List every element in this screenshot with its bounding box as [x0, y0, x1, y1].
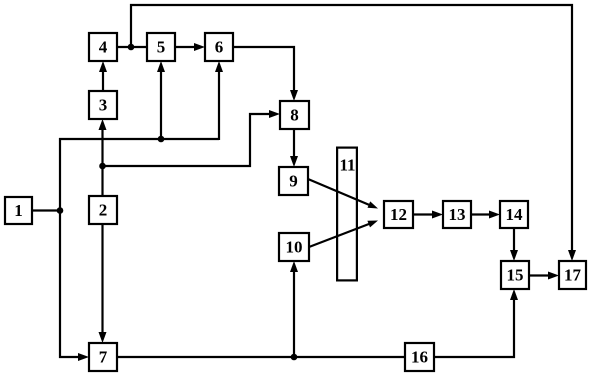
svg-text:7: 7: [99, 348, 108, 367]
svg-text:5: 5: [157, 38, 166, 57]
arrowhead of block10 diagonal: [367, 221, 378, 228]
wire junction up to bus line y139: [59, 138, 61, 211]
junction at block1 output: [57, 207, 64, 214]
svg-text:9: 9: [289, 172, 298, 191]
junction on bus at block5 column: [158, 136, 165, 143]
svg-text:3: 3: [99, 96, 108, 115]
block 3: [89, 91, 117, 119]
wire feedback junction up and across top to block17: [131, 5, 572, 254]
wire block8 bottom to block9 top: [293, 129, 295, 160]
wire block3 top to block4 bottom: [102, 68, 104, 91]
block 1: [5, 197, 32, 224]
arrowhead into block5 bottom: [157, 61, 165, 72]
arrowhead into block3 bottom: [99, 119, 107, 130]
wire block15 right to block17 left: [529, 274, 552, 276]
arrowhead into block7 top: [99, 332, 107, 343]
block 7: [89, 343, 117, 371]
block 11: [337, 148, 357, 281]
wire block6 right then down into block8 top: [233, 47, 294, 94]
block 5: [147, 33, 175, 61]
arrowhead into block17 top: [568, 250, 576, 261]
block 4: [89, 33, 117, 61]
wire block12 right to block13 left: [413, 213, 436, 215]
junction on bottom bus at block10 column: [291, 354, 298, 361]
junction on block2-block3 wire: [99, 163, 106, 170]
arrowhead into block8 left: [269, 110, 280, 118]
arrowhead into block6 left: [194, 43, 205, 51]
block 8: [280, 101, 309, 129]
svg-text:6: 6: [215, 38, 224, 57]
wire block16 right then up into block15 bottom: [434, 296, 514, 357]
wire block2 bottom down into block7 top: [101, 223, 103, 336]
diagonal wire block10 to block12: [309, 223, 373, 247]
wire block14 bottom to block15 top: [513, 228, 515, 254]
wire horizontal bus y139 to block6 column: [59, 138, 219, 140]
svg-text:16: 16: [411, 348, 428, 367]
svg-text:14: 14: [506, 205, 524, 224]
block 6: [205, 33, 233, 61]
block 2: [89, 196, 117, 224]
block 16: [405, 343, 434, 371]
block 17: [559, 261, 586, 289]
block 9: [279, 167, 308, 195]
svg-text:15: 15: [507, 266, 524, 285]
arrowhead into block10 bottom: [290, 261, 298, 272]
arrowhead into block17 left: [548, 272, 559, 280]
svg-text:13: 13: [449, 205, 466, 224]
block 13: [443, 201, 471, 228]
wire block2 top up to block3 bottom: [101, 126, 103, 195]
svg-text:12: 12: [390, 205, 407, 224]
svg-text:2: 2: [99, 201, 108, 220]
svg-text:1: 1: [14, 201, 23, 220]
block 10: [279, 233, 309, 261]
block 14: [500, 201, 528, 228]
arrowhead into block9 top: [290, 156, 298, 167]
arrowhead into block14 left: [489, 211, 500, 219]
svg-text:4: 4: [99, 38, 108, 57]
wire block5 right to block6 left: [175, 46, 198, 48]
wire up into block5 bottom: [160, 68, 162, 139]
wire junction up into block10 bottom: [293, 268, 295, 357]
wire block4 right to block5 left: [117, 46, 147, 48]
wire block7 right to block16 left: [117, 356, 405, 358]
arrowhead into block7 left: [78, 353, 89, 361]
svg-text:11: 11: [339, 156, 355, 175]
arrowhead into block15 bottom: [510, 289, 518, 300]
block 15: [501, 261, 529, 289]
arrowhead into block15 top: [510, 250, 518, 261]
svg-text:8: 8: [290, 106, 299, 125]
arrowhead into block8 top: [290, 90, 298, 101]
svg-text:10: 10: [286, 238, 303, 257]
junction between block4 and block5: [128, 44, 135, 51]
diagonal wire block9 to block12: [308, 179, 373, 207]
svg-text:17: 17: [564, 266, 582, 285]
wire block13 right to block14 left: [471, 213, 493, 215]
arrowhead into block13 left: [432, 211, 443, 219]
arrowhead into block4 bottom: [99, 61, 107, 72]
block 12: [384, 201, 413, 228]
arrowhead into block6 bottom: [215, 61, 223, 72]
wire block1 output to junction: [32, 209, 61, 211]
arrowhead of block9 diagonal: [368, 201, 379, 208]
wire up into block6 bottom: [218, 68, 220, 140]
wire from junction right then up into block8 left: [103, 114, 274, 166]
wire junction down to block7 row: [60, 211, 82, 358]
